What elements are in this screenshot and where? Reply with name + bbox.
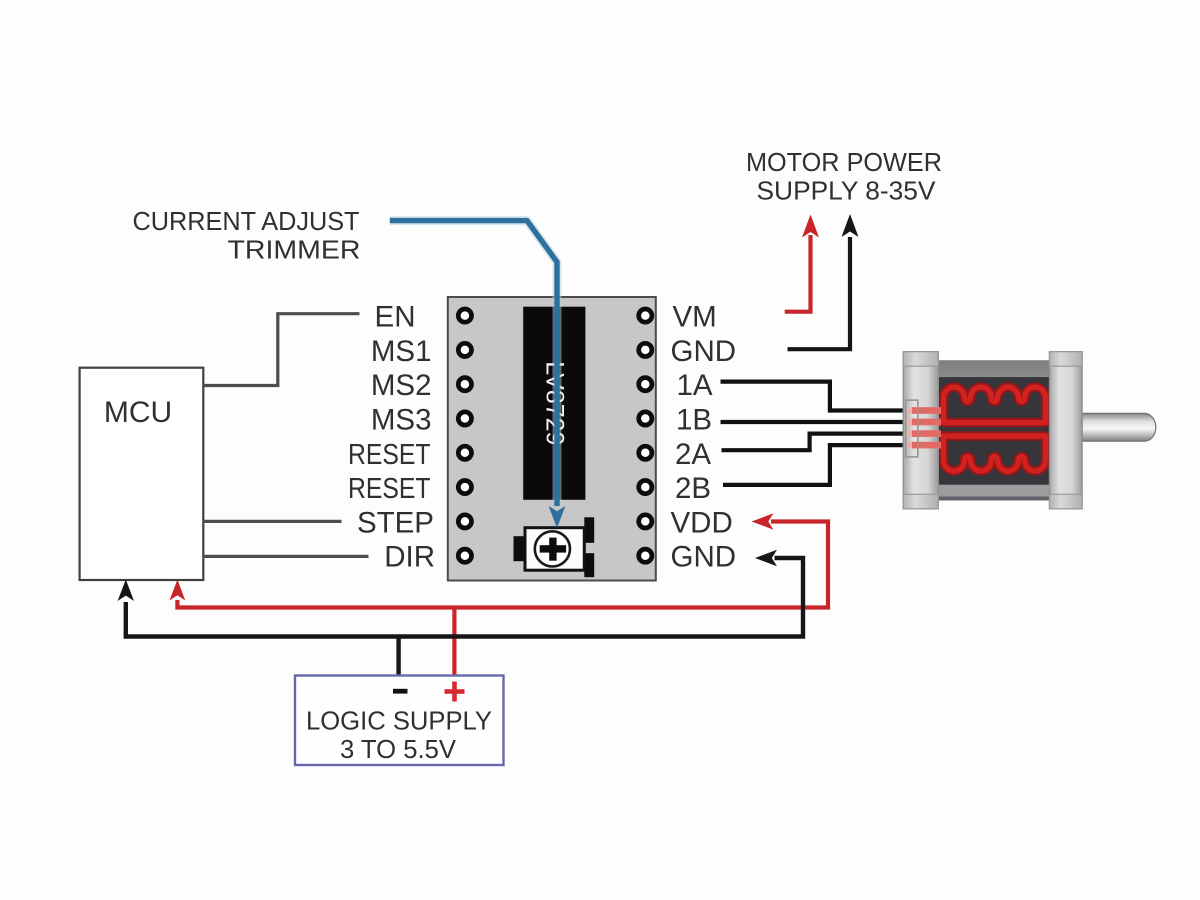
wire 2A to motor [722, 434, 910, 451]
svg-text:RESET: RESET [348, 473, 431, 505]
svg-text:MS2: MS2 [371, 369, 432, 402]
svg-text:VDD: VDD [671, 506, 733, 539]
op-amp U1 IC body [523, 307, 585, 500]
node MOTOR POWER SUPPLY label [746, 149, 942, 206]
svg-text:STEP: STEP [357, 506, 434, 539]
motor wire connector [906, 400, 941, 457]
resistor RV1 trimmer potentiometer [514, 517, 595, 577]
pin GND2 circle [639, 549, 652, 562]
pin VM circle [639, 309, 652, 322]
pin 1A circle [639, 378, 652, 391]
wire blue trimmer pointer [390, 221, 566, 528]
svg-text:DIR: DIR [384, 541, 435, 574]
motor left end cap [903, 352, 938, 509]
svg-text:TRIMMER: TRIMMER [228, 237, 361, 265]
motor coil upper [944, 387, 1046, 422]
motor coil lower [944, 436, 1046, 471]
svg-text:GND: GND [671, 541, 737, 574]
op-amp U1 driver board [448, 297, 656, 581]
svg-text:LOGIC SUPPLY: LOGIC SUPPLY [306, 708, 492, 736]
wire 1A to motor [721, 382, 910, 411]
svg-text:MS3: MS3 [371, 404, 432, 437]
pin MS1 circle [458, 343, 471, 356]
pin VDD circle [639, 515, 652, 528]
motor M1 stepper [903, 352, 1156, 509]
wire GND black power net [118, 550, 803, 677]
svg-text:CURRENT ADJUST: CURRENT ADJUST [133, 208, 360, 236]
wire 2B to motor [723, 445, 909, 485]
wire EN to MCU [203, 314, 360, 386]
svg-text:1A: 1A [677, 369, 713, 402]
pin MS3 circle [458, 412, 471, 425]
pin RESET1 circle [458, 446, 471, 459]
svg-text:MS1: MS1 [371, 335, 432, 368]
motor body center [938, 360, 1049, 500]
pin 1B circle [639, 412, 652, 425]
svg-text:GND: GND [671, 335, 737, 368]
svg-text:2A: 2A [675, 438, 711, 471]
pin 2A circle [639, 446, 652, 459]
pin 2B circle [639, 481, 652, 494]
wire GND to motor power (black) [788, 214, 859, 349]
motor right end cap [1050, 352, 1083, 509]
svg-text:RESET: RESET [348, 439, 431, 471]
svg-text:EN: EN [375, 301, 416, 334]
battery LOGIC SUPPLY box [295, 676, 504, 766]
wire 1B to motor [721, 420, 910, 424]
wire VDD red power net [170, 513, 829, 677]
pin EN circle [458, 309, 471, 322]
wire VM to motor power (red) [785, 215, 819, 312]
wire DIR to MCU [203, 555, 369, 558]
svg-text:SUPPLY 8-35V: SUPPLY 8-35V [757, 178, 936, 206]
svg-text:VM: VM [673, 301, 717, 334]
wire STEP to MCU [203, 520, 342, 523]
pin RESET2 circle [458, 481, 471, 494]
svg-text:2B: 2B [675, 472, 711, 505]
svg-text:MCU: MCU [104, 396, 172, 429]
svg-text:1B: 1B [676, 404, 712, 437]
pin GND1 circle [639, 343, 652, 356]
pin STEP circle [458, 515, 471, 528]
pin DIR circle [458, 549, 471, 562]
pin MS2 circle [458, 378, 471, 391]
motor shaft [1082, 413, 1156, 441]
MCU U2 box [80, 368, 204, 580]
svg-text:MOTOR POWER: MOTOR POWER [746, 149, 942, 177]
node CURRENT ADJUST TRIMMER label [133, 208, 361, 265]
svg-text:3 TO 5.5V: 3 TO 5.5V [340, 736, 456, 764]
